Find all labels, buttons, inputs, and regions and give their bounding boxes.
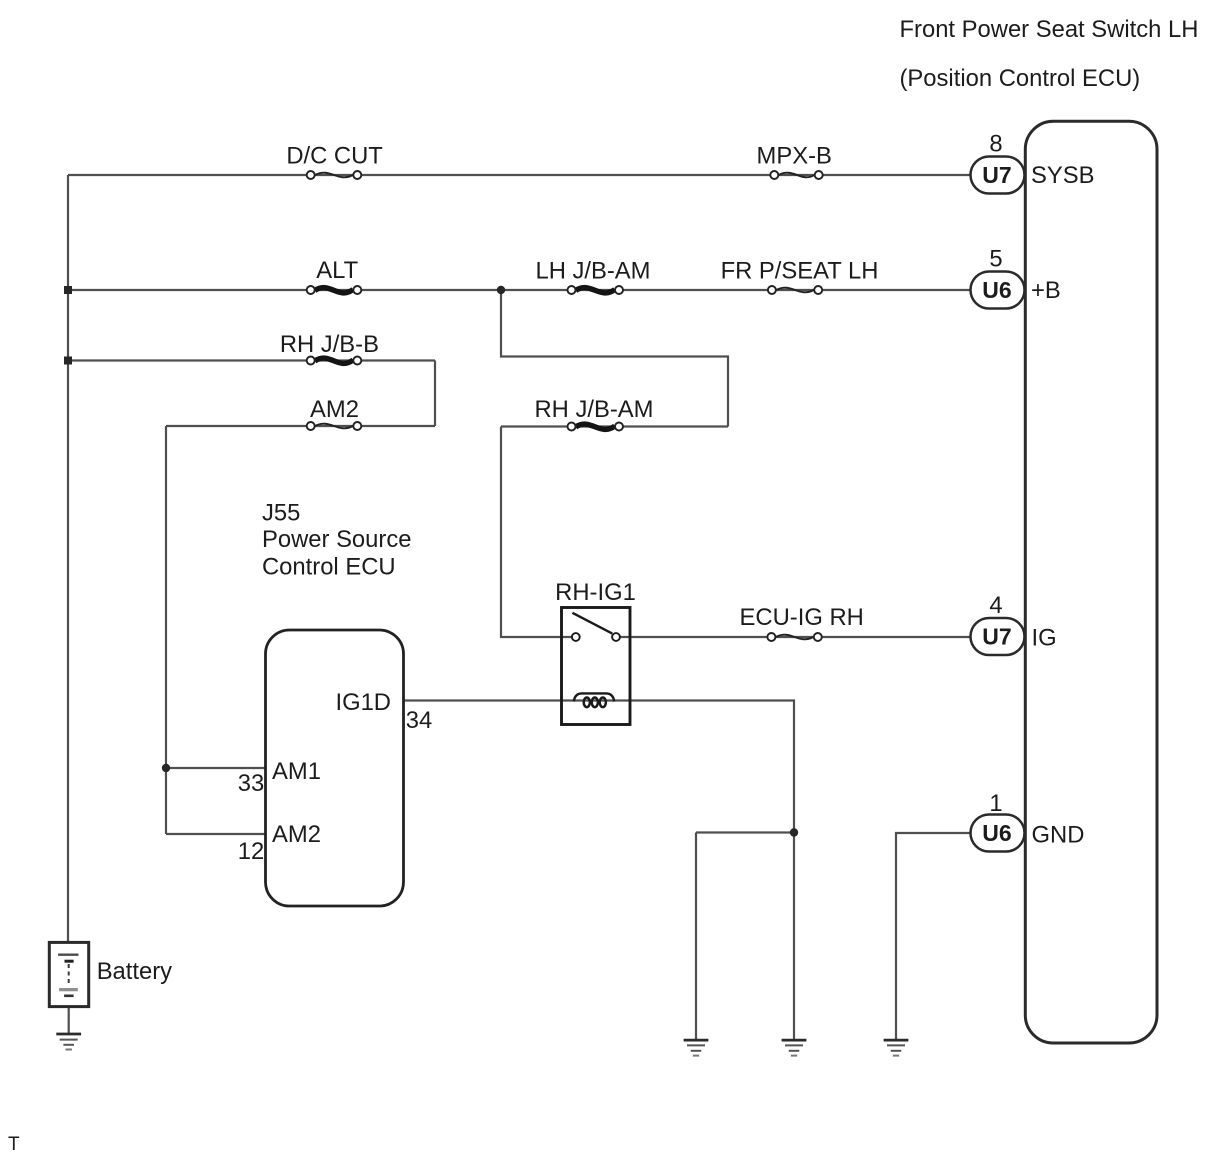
svg-text:+B: +B xyxy=(1031,277,1061,304)
svg-text:1: 1 xyxy=(989,790,1002,817)
svg-text:T: T xyxy=(8,1134,20,1155)
svg-text:D/C CUT: D/C CUT xyxy=(286,143,383,170)
svg-text:ALT: ALT xyxy=(316,257,358,284)
svg-text:(Position Control ECU): (Position Control ECU) xyxy=(900,65,1141,92)
svg-text:AM2: AM2 xyxy=(272,821,321,848)
svg-text:FR P/SEAT LH: FR P/SEAT LH xyxy=(721,258,879,285)
svg-text:RH J/B-AM: RH J/B-AM xyxy=(535,396,654,423)
svg-text:U6: U6 xyxy=(982,820,1011,846)
svg-text:34: 34 xyxy=(406,707,432,734)
svg-text:AM1: AM1 xyxy=(272,758,321,785)
svg-text:U7: U7 xyxy=(982,162,1011,188)
svg-text:8: 8 xyxy=(989,131,1002,158)
svg-text:AM2: AM2 xyxy=(310,396,359,423)
svg-text:Front Power Seat Switch LH: Front Power Seat Switch LH xyxy=(900,16,1199,43)
svg-text:RH-IG1: RH-IG1 xyxy=(555,579,636,606)
svg-text:12: 12 xyxy=(238,838,264,865)
svg-text:33: 33 xyxy=(238,770,264,797)
svg-text:RH J/B-B: RH J/B-B xyxy=(280,331,379,358)
svg-text:U7: U7 xyxy=(982,624,1011,650)
svg-text:ECU-IG RH: ECU-IG RH xyxy=(740,604,864,631)
svg-text:5: 5 xyxy=(989,246,1002,273)
svg-text:GND: GND xyxy=(1032,822,1085,849)
svg-text:Battery: Battery xyxy=(97,958,172,985)
svg-text:IG: IG xyxy=(1032,625,1057,652)
svg-text:SYSB: SYSB xyxy=(1031,162,1095,189)
svg-text:MPX-B: MPX-B xyxy=(757,143,832,170)
svg-text:J55: J55 xyxy=(262,500,300,527)
svg-text:Control ECU: Control ECU xyxy=(262,554,396,581)
svg-text:IG1D: IG1D xyxy=(335,689,391,716)
svg-text:LH J/B-AM: LH J/B-AM xyxy=(535,258,650,285)
svg-text:Power Source: Power Source xyxy=(262,526,411,553)
svg-text:4: 4 xyxy=(989,592,1002,619)
svg-text:U6: U6 xyxy=(982,277,1011,303)
